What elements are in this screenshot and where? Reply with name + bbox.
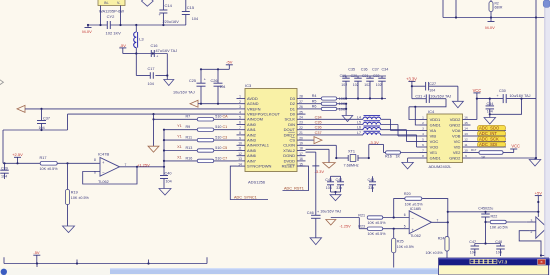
svg-text:7: 7 bbox=[422, 149, 424, 153]
wire bbox=[409, 99, 446, 125]
svg-text:CY2: CY2 bbox=[107, 14, 116, 19]
ground (C33) bbox=[484, 118, 496, 125]
svg-text:C14: C14 bbox=[165, 3, 173, 8]
svg-text:27: 27 bbox=[299, 100, 303, 104]
svg-text:VID: VID bbox=[454, 144, 461, 149]
svg-text:10u/16V TAJ: 10u/16V TAJ bbox=[320, 209, 341, 213]
svg-text:V7.3: V7.3 bbox=[498, 260, 508, 265]
svg-text:M-0V: M-0V bbox=[82, 29, 92, 34]
svg-text:R17: R17 bbox=[471, 148, 477, 152]
net label ADC_SDI bbox=[471, 142, 507, 147]
svg-text:5: 5 bbox=[404, 224, 406, 228]
svg-text:C21: C21 bbox=[362, 74, 368, 78]
svg-text:8: 8 bbox=[422, 154, 424, 158]
svg-text:CA: CA bbox=[223, 115, 229, 119]
resistor R16 510 bbox=[164, 155, 237, 162]
svg-text:10K ±0.5%: 10K ±0.5% bbox=[426, 251, 443, 255]
wire bbox=[489, 99, 522, 118]
svg-text:C26: C26 bbox=[211, 79, 218, 83]
wire AGND bbox=[198, 103, 237, 105]
svg-text:-1.25V: -1.25V bbox=[340, 224, 352, 228]
wire bbox=[101, 6, 121, 26]
svg-text:10K ±0.5%: 10K ±0.5% bbox=[71, 196, 90, 200]
svg-text:C34: C34 bbox=[382, 67, 389, 71]
wire bbox=[3, 114, 68, 163]
wire bbox=[200, 68, 229, 70]
power module U1 WA1205P-6W bbox=[98, 0, 125, 14]
svg-text:C17: C17 bbox=[148, 67, 155, 71]
capacitor C17 bbox=[148, 67, 155, 86]
taskbar strip bbox=[0, 268, 550, 275]
svg-text:102: 102 bbox=[364, 83, 370, 87]
svg-text:C48: C48 bbox=[495, 240, 502, 244]
wire bbox=[368, 144, 384, 159]
svg-text:19: 19 bbox=[299, 142, 303, 146]
capacitor C16 bbox=[151, 44, 178, 59]
svg-text:510: 510 bbox=[215, 125, 221, 129]
svg-text:13: 13 bbox=[464, 132, 468, 136]
power -5V (C25) bbox=[226, 60, 233, 70]
crystal XT1 bbox=[336, 150, 369, 168]
svg-text:XT1: XT1 bbox=[348, 150, 355, 154]
wire VREFN bbox=[25, 108, 237, 110]
svg-text:ADC_SYNC1: ADC_SYNC1 bbox=[234, 195, 257, 199]
svg-text:10K ±0.5%: 10K ±0.5% bbox=[368, 232, 387, 236]
svg-text:C34: C34 bbox=[315, 115, 322, 119]
wire bbox=[358, 218, 360, 229]
svg-text:16: 16 bbox=[299, 157, 303, 161]
svg-text:104: 104 bbox=[496, 250, 502, 254]
ground (IC4) bbox=[529, 160, 541, 167]
svg-text:+: + bbox=[497, 94, 499, 98]
svg-text:GND1: GND1 bbox=[430, 122, 442, 127]
svg-text:IC3: IC3 bbox=[245, 83, 252, 88]
svg-text:102: 102 bbox=[353, 83, 359, 87]
inductor L7 / net label C37 bbox=[306, 131, 420, 147]
capacitor C43 bbox=[368, 176, 377, 192]
svg-text:10: 10 bbox=[238, 142, 242, 146]
ground (XTAL2) bbox=[323, 163, 336, 169]
svg-text:VOC: VOC bbox=[430, 139, 439, 144]
wire (bias bus) bbox=[163, 129, 165, 167]
ground (C41/C42) bbox=[330, 191, 341, 201]
svg-text:ADC_SDO: ADC_SDO bbox=[479, 126, 500, 131]
wire (VCC rail) bbox=[476, 98, 536, 100]
ground (C27) bbox=[452, 101, 463, 108]
svg-text:10K ±0.5%: 10K ±0.5% bbox=[397, 245, 414, 249]
capacitor C45 bbox=[478, 207, 493, 220]
svg-text:-3.3V: -3.3V bbox=[315, 169, 325, 174]
ground (IC4 left) bbox=[402, 158, 420, 169]
svg-text:C47: C47 bbox=[469, 240, 476, 244]
svg-text:10K: 10K bbox=[339, 102, 346, 106]
svg-text:4: 4 bbox=[239, 110, 241, 114]
svg-text:10K ±0.5%: 10K ±0.5% bbox=[368, 221, 387, 225]
scrollbar track bbox=[544, 0, 550, 275]
svg-text:26: 26 bbox=[299, 105, 303, 109]
wire bbox=[135, 52, 167, 54]
capacitor C15 bbox=[182, 0, 198, 25]
capacitor C40 bbox=[160, 167, 172, 189]
svg-text:14: 14 bbox=[464, 127, 468, 131]
svg-text:12: 12 bbox=[464, 138, 468, 142]
inductor L4 / net label C34 bbox=[306, 115, 420, 130]
svg-text:10K ±0.5%: 10K ±0.5% bbox=[40, 167, 59, 171]
svg-text:102: 102 bbox=[341, 83, 347, 87]
svg-text:ADC_SCK: ADC_SCK bbox=[479, 137, 499, 142]
resistor R17 bbox=[40, 156, 59, 171]
resistor R20 bbox=[394, 192, 448, 222]
svg-text:16: 16 bbox=[464, 116, 468, 120]
port arrow (AGND) bbox=[190, 100, 198, 107]
svg-text:C36: C36 bbox=[315, 126, 322, 130]
svg-text:8: 8 bbox=[239, 131, 241, 135]
svg-text:IC16B: IC16B bbox=[410, 206, 421, 211]
svg-text:C43: C43 bbox=[368, 178, 375, 182]
net label ADC_RST1 bbox=[283, 166, 309, 190]
wire (DGND/-3.3V) bbox=[306, 152, 316, 215]
svg-text:C1: C1 bbox=[223, 125, 228, 129]
port arrow -1.25V bbox=[326, 220, 351, 229]
capacitor C14 bbox=[159, 0, 180, 25]
power +2.5V bbox=[12, 152, 23, 163]
svg-text:10K: 10K bbox=[339, 97, 346, 101]
svg-text:10u/16V TAJ: 10u/16V TAJ bbox=[510, 94, 531, 98]
svg-text:10K: 10K bbox=[339, 107, 346, 111]
svg-text:47u/16V TAJ: 47u/16V TAJ bbox=[156, 49, 178, 53]
sheet connector (left edge) bbox=[0, 79, 3, 87]
svg-text:C30: C30 bbox=[499, 89, 506, 93]
svg-text:IC4: IC4 bbox=[428, 109, 435, 114]
svg-text:R6: R6 bbox=[312, 105, 317, 109]
svg-text:220u/16V: 220u/16V bbox=[163, 20, 180, 24]
capacitor C48 bbox=[495, 240, 504, 256]
capacitor CY2 bbox=[106, 14, 122, 35]
svg-text:ADC_INT: ADC_INT bbox=[479, 131, 497, 136]
net label ADC_SDO bbox=[471, 126, 507, 131]
capacitor C39 bbox=[0, 163, 9, 179]
svg-text:L3: L3 bbox=[139, 37, 144, 42]
svg-text:M-0V: M-0V bbox=[485, 25, 495, 30]
net label ADC_INT bbox=[471, 131, 507, 136]
svg-text:102: 102 bbox=[376, 83, 382, 87]
resistor R24 bbox=[426, 222, 450, 267]
op-amp U2 ADS1256 IC3 bbox=[237, 83, 306, 184]
capacitor C47 bbox=[469, 240, 500, 256]
capacitor C27 bbox=[426, 82, 436, 93]
svg-text:C3: C3 bbox=[223, 136, 228, 140]
net label ADC_SYNC1 bbox=[230, 166, 268, 199]
svg-text:C40: C40 bbox=[165, 171, 172, 175]
svg-text:18: 18 bbox=[299, 147, 303, 151]
inductor L3 bbox=[134, 25, 145, 54]
svg-text:TL062: TL062 bbox=[410, 234, 421, 238]
svg-text:C35: C35 bbox=[315, 121, 322, 125]
ground (C17) bbox=[164, 80, 174, 86]
svg-text:11: 11 bbox=[238, 147, 242, 151]
svg-text:VDD2: VDD2 bbox=[450, 117, 461, 122]
wire (IC47B out) bbox=[120, 166, 166, 168]
net label ADC_SCK bbox=[471, 137, 507, 142]
resistor R11 510 bbox=[164, 135, 237, 142]
svg-text:9: 9 bbox=[465, 154, 467, 158]
resistor R4 10K bbox=[306, 94, 387, 101]
port arrow (VREFN) bbox=[17, 105, 25, 112]
svg-text:-3.3V: -3.3V bbox=[369, 140, 379, 145]
svg-text:17: 17 bbox=[299, 152, 303, 156]
svg-text:510: 510 bbox=[215, 115, 221, 119]
svg-text:VOA: VOA bbox=[452, 128, 461, 133]
capacitor C25 bbox=[173, 69, 207, 103]
svg-text:13: 13 bbox=[238, 157, 242, 161]
wire (XTAL2) bbox=[306, 149, 330, 162]
svg-text:-5V: -5V bbox=[226, 60, 233, 65]
svg-text:R4: R4 bbox=[312, 94, 317, 98]
svg-text:12: 12 bbox=[238, 152, 242, 156]
svg-text:GND2: GND2 bbox=[449, 155, 461, 160]
svg-text:104: 104 bbox=[148, 82, 154, 86]
svg-text:104: 104 bbox=[487, 109, 493, 113]
power M-0V bbox=[82, 24, 92, 34]
svg-text:104: 104 bbox=[192, 17, 198, 21]
svg-text:510: 510 bbox=[215, 156, 221, 160]
capacitor C33 bbox=[486, 99, 495, 115]
capacitor C42 bbox=[331, 176, 345, 192]
wire (IC16B out) bbox=[432, 211, 449, 224]
op-amp IC16B bbox=[404, 206, 439, 238]
wire bbox=[535, 18, 537, 160]
taskbar icon bbox=[1, 269, 7, 275]
svg-text:6: 6 bbox=[422, 143, 424, 147]
svg-text:1K: 1K bbox=[396, 155, 401, 159]
capacitor C31 bbox=[415, 94, 451, 103]
svg-text:L6: L6 bbox=[357, 126, 361, 130]
svg-text:10: 10 bbox=[464, 149, 468, 153]
svg-text:C34: C34 bbox=[487, 102, 494, 106]
svg-text:C5: C5 bbox=[223, 146, 228, 150]
wire bbox=[484, 220, 486, 244]
svg-text:102 1KV: 102 1KV bbox=[106, 30, 122, 35]
svg-text:C37: C37 bbox=[43, 116, 50, 120]
inductor L5 / net label C35 bbox=[306, 121, 420, 137]
svg-text:7.68MHz: 7.68MHz bbox=[344, 163, 359, 167]
svg-text:C27: C27 bbox=[429, 82, 436, 86]
inductor L6 / net label C36 bbox=[306, 126, 420, 142]
svg-text:R17: R17 bbox=[40, 156, 47, 160]
ground (C46) bbox=[310, 238, 322, 245]
svg-text:Y1: Y1 bbox=[177, 124, 182, 128]
resistor R9 510 bbox=[164, 124, 237, 131]
svg-text:510: 510 bbox=[215, 146, 221, 150]
ground (C40) bbox=[159, 189, 171, 196]
resistor R25 bbox=[392, 229, 414, 268]
svg-text:104: 104 bbox=[429, 89, 435, 93]
svg-text:10K ±0.5%: 10K ±0.5% bbox=[490, 226, 509, 230]
svg-text:R20: R20 bbox=[404, 192, 411, 196]
svg-text:VE1: VE1 bbox=[430, 150, 438, 155]
svg-text:+5V: +5V bbox=[535, 190, 543, 195]
svg-text:+3.3V: +3.3V bbox=[406, 76, 417, 81]
svg-text:24: 24 bbox=[299, 116, 303, 120]
svg-text:3: 3 bbox=[422, 127, 424, 131]
svg-text:R9: R9 bbox=[186, 125, 191, 129]
svg-text:4: 4 bbox=[422, 132, 424, 136]
power -5V (L3) bbox=[119, 43, 136, 54]
svg-text:ADC_RST1: ADC_RST1 bbox=[284, 186, 304, 190]
svg-text:VCC: VCC bbox=[473, 88, 482, 93]
svg-text:ADS1256: ADS1256 bbox=[248, 180, 266, 185]
wire (bottom rail) bbox=[4, 257, 207, 267]
svg-text:+2.5V: +2.5V bbox=[12, 152, 23, 157]
net +1.25V bbox=[137, 163, 150, 168]
svg-text:L4: L4 bbox=[357, 115, 361, 119]
svg-text:5: 5 bbox=[422, 138, 424, 142]
svg-text:11: 11 bbox=[464, 143, 467, 147]
resistor R22 bbox=[486, 215, 527, 230]
svg-text:X1: X1 bbox=[177, 145, 182, 149]
svg-text:+: + bbox=[156, 55, 158, 59]
svg-text:C22: C22 bbox=[373, 74, 379, 78]
svg-text:ADC_SDI: ADC_SDI bbox=[479, 142, 497, 147]
svg-text:33p: 33p bbox=[368, 186, 374, 190]
svg-text:-5V: -5V bbox=[33, 250, 40, 255]
wire bbox=[3, 162, 100, 164]
wire VREFP bbox=[68, 113, 237, 115]
power VCC bbox=[473, 88, 482, 99]
svg-text:R5: R5 bbox=[312, 99, 317, 103]
svg-text:R24: R24 bbox=[438, 237, 445, 241]
resistor R13 510 bbox=[164, 145, 237, 152]
svg-text:R11: R11 bbox=[186, 136, 193, 140]
svg-text:C37: C37 bbox=[372, 67, 379, 71]
svg-text:104: 104 bbox=[470, 250, 476, 254]
svg-text:104: 104 bbox=[1, 175, 7, 179]
svg-text:VDD1: VDD1 bbox=[430, 117, 441, 122]
svg-text:R22: R22 bbox=[491, 215, 498, 219]
svg-text:5: 5 bbox=[239, 116, 241, 120]
svg-text:C16: C16 bbox=[151, 44, 158, 48]
svg-text:+1.25V: +1.25V bbox=[137, 163, 150, 168]
svg-text:10u/16V TAJ: 10u/16V TAJ bbox=[430, 94, 451, 98]
svg-text:15: 15 bbox=[464, 121, 468, 125]
wire bbox=[412, 86, 446, 99]
resistor R16 1K bbox=[384, 151, 420, 159]
svg-text:21: 21 bbox=[299, 131, 303, 135]
svg-text:R19: R19 bbox=[71, 191, 78, 195]
svg-text:R16: R16 bbox=[385, 155, 392, 159]
svg-text:C15: C15 bbox=[187, 5, 195, 10]
wire (XTAL1) bbox=[306, 145, 338, 159]
svg-text:C46: C46 bbox=[307, 211, 314, 215]
svg-text:8: 8 bbox=[94, 158, 96, 162]
svg-text:23: 23 bbox=[299, 121, 303, 125]
capacitor C46 bbox=[307, 209, 342, 237]
svg-text:ADUM2402L: ADUM2402L bbox=[429, 164, 453, 169]
svg-text:VOD: VOD bbox=[430, 144, 439, 149]
svg-text:2: 2 bbox=[239, 100, 241, 104]
svg-text:C37: C37 bbox=[315, 131, 322, 135]
capacitor C26 bbox=[211, 69, 226, 103]
svg-text:C19: C19 bbox=[340, 74, 346, 78]
svg-text:33p: 33p bbox=[336, 186, 342, 190]
ground (R19) bbox=[63, 226, 75, 233]
svg-text:7: 7 bbox=[239, 126, 241, 130]
scrollbar button bbox=[543, 0, 550, 7]
wire bbox=[443, 0, 536, 18]
power -3.3V (xtal) bbox=[312, 166, 324, 174]
wire (GND2) bbox=[471, 158, 536, 160]
calendar window 飞黄桌面日历 bbox=[439, 258, 550, 275]
svg-text:C35: C35 bbox=[348, 67, 355, 71]
op-amp U4 (right) bbox=[527, 217, 547, 238]
svg-text:6: 6 bbox=[239, 121, 241, 125]
svg-text:680R: 680R bbox=[495, 6, 504, 10]
resistor R6 10K bbox=[306, 105, 347, 112]
svg-text:X1: X1 bbox=[177, 155, 182, 159]
resistor R2 680R bbox=[489, 0, 503, 18]
svg-text:VIA: VIA bbox=[430, 128, 437, 133]
wire bbox=[411, 85, 458, 101]
svg-text:GND2: GND2 bbox=[449, 122, 461, 127]
capacitor C41 bbox=[325, 176, 334, 192]
svg-text:3: 3 bbox=[239, 105, 241, 109]
svg-text:104: 104 bbox=[220, 85, 226, 89]
svg-text:L5: L5 bbox=[357, 121, 361, 125]
capacitor bank C19 C20 C21 C22 / C35 C36 C37 C34 bbox=[340, 67, 389, 99]
svg-text:IC47B: IC47B bbox=[98, 152, 109, 157]
sheet connector diamond bbox=[142, 0, 154, 6]
power -5V (bottom) bbox=[33, 250, 40, 264]
svg-text:10u/16V TAJ: 10u/16V TAJ bbox=[173, 91, 195, 95]
svg-text:9: 9 bbox=[239, 136, 241, 140]
svg-text:2: 2 bbox=[422, 121, 424, 125]
wire bbox=[448, 211, 540, 213]
resistor R19 bbox=[65, 163, 89, 226]
port arrow (CS row) bbox=[306, 137, 323, 144]
wire bbox=[136, 54, 168, 80]
svg-text:28: 28 bbox=[299, 95, 303, 99]
wire (VCC to pin16) bbox=[471, 99, 477, 120]
svg-text:VOB: VOB bbox=[452, 133, 461, 138]
ground (R7 bus) bbox=[148, 146, 159, 152]
svg-text:C25: C25 bbox=[189, 79, 196, 83]
svg-text:22: 22 bbox=[299, 126, 303, 130]
svg-text:TL062: TL062 bbox=[98, 180, 109, 184]
wire (IC47B feedback) bbox=[83, 167, 137, 184]
svg-text:R25: R25 bbox=[397, 240, 404, 244]
svg-text:6: 6 bbox=[404, 213, 406, 217]
svg-text:104: 104 bbox=[326, 186, 332, 190]
svg-text:C7: C7 bbox=[223, 156, 228, 160]
wire bbox=[331, 217, 360, 219]
svg-text:510: 510 bbox=[215, 136, 221, 140]
isolator U3 ADUM2402L IC4 bbox=[420, 109, 471, 169]
power -3.3V (R16 net) bbox=[369, 140, 379, 145]
resistor R18 1K bbox=[471, 148, 514, 160]
resistor R5 10K bbox=[306, 99, 347, 106]
power +3.3V bbox=[406, 76, 417, 86]
power M-0V (R2) bbox=[485, 18, 495, 30]
svg-text:SYNC/PDWN: SYNC/PDWN bbox=[247, 164, 272, 169]
svg-text:-5V: -5V bbox=[120, 43, 127, 48]
svg-text:Y1: Y1 bbox=[177, 135, 182, 139]
wire (fb loop) bbox=[519, 228, 550, 257]
svg-text:VIB: VIB bbox=[430, 133, 437, 138]
wire bbox=[152, 114, 154, 146]
svg-text:1: 1 bbox=[239, 95, 241, 99]
wire (R5/R6 join) bbox=[345, 97, 347, 115]
svg-text:1: 1 bbox=[422, 116, 424, 120]
